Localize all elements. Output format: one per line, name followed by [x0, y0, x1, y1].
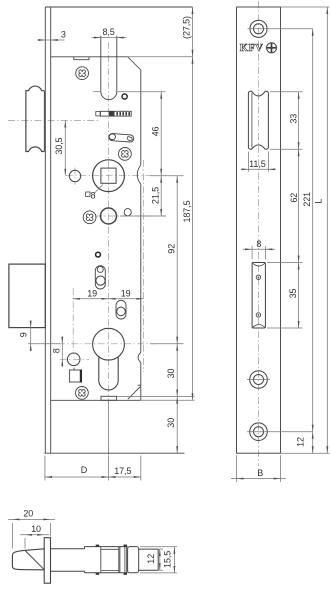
- svg-text:30: 30: [166, 369, 176, 379]
- svg-text:30,5: 30,5: [54, 137, 64, 154]
- svg-text:35: 35: [288, 289, 298, 299]
- svg-text:8,5: 8,5: [102, 27, 114, 37]
- svg-text:30: 30: [166, 418, 176, 428]
- svg-text:B: B: [257, 468, 263, 478]
- svg-text:221: 221: [302, 192, 312, 207]
- svg-text:20: 20: [23, 509, 33, 519]
- svg-text:8: 8: [256, 239, 261, 249]
- svg-text:10: 10: [31, 524, 41, 534]
- svg-text:KFV: KFV: [240, 43, 263, 54]
- svg-text:8: 8: [91, 191, 96, 201]
- svg-text:9: 9: [19, 332, 29, 337]
- svg-text:12: 12: [296, 437, 306, 447]
- svg-text:187,5: 187,5: [182, 200, 192, 222]
- svg-text:12: 12: [146, 554, 156, 564]
- svg-text:19: 19: [87, 289, 97, 299]
- svg-text:46: 46: [150, 127, 160, 137]
- svg-text:19: 19: [121, 289, 131, 299]
- svg-text:11,5: 11,5: [249, 159, 266, 169]
- svg-text:(27,5): (27,5): [181, 16, 191, 39]
- svg-text:17,5: 17,5: [114, 466, 131, 476]
- svg-text:15,5: 15,5: [162, 551, 172, 568]
- svg-text:62: 62: [289, 193, 299, 203]
- svg-text:33: 33: [289, 114, 299, 124]
- svg-text:21,5: 21,5: [151, 187, 161, 204]
- svg-text:L: L: [314, 199, 324, 204]
- svg-text:D: D: [81, 465, 88, 475]
- svg-text:3: 3: [61, 29, 66, 39]
- svg-text:8: 8: [52, 348, 62, 353]
- svg-text:92: 92: [167, 244, 177, 254]
